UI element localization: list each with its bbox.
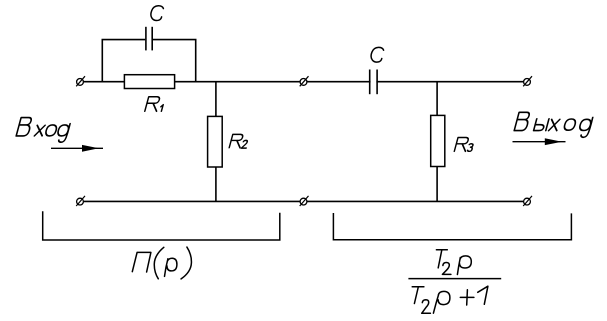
capacitor C (parallel with R1) [146,27,152,51]
wire: bottom rail [84,200,523,202]
terminal: input bottom [76,196,85,206]
wire: R3 branch top [436,82,438,116]
fraction bar [408,278,501,280]
label Выход (output) [512,112,594,137]
terminal: output top [523,76,532,86]
wire: R2 branch top [215,82,217,117]
resistor R2 [208,116,223,167]
resistor R1 [124,75,174,89]
label numerator T2p [436,250,471,275]
terminal: input top [76,76,85,86]
capacitor C (series, right network) [370,70,377,95]
terminal: output bottom [523,196,532,206]
bracket: left network П(p) [43,211,280,240]
bracket: right network T2p/(T2p+1) [333,213,571,240]
label denominator T2p+1 [412,286,488,313]
label Вход (input) [15,118,72,143]
wire: top rail [84,81,523,83]
label R1 [145,97,166,112]
wire: R3 branch bottom [436,167,438,202]
wire: C1 feedback branch (up-over R1) [102,40,195,82]
white gap inside series capacitor [371,79,377,85]
label R3 [454,138,475,152]
label C (series capacitor) [371,47,384,62]
arrow: input [51,145,103,152]
label R2 [229,134,250,148]
resistor R3 [431,115,445,166]
label П(p) [132,247,191,279]
terminal: mid bottom node [300,196,309,206]
terminal: mid top node [300,76,309,86]
wire: R2 branch bottom [215,167,217,201]
label C (parallel capacitor) [151,6,164,21]
arrow: output [513,138,566,145]
